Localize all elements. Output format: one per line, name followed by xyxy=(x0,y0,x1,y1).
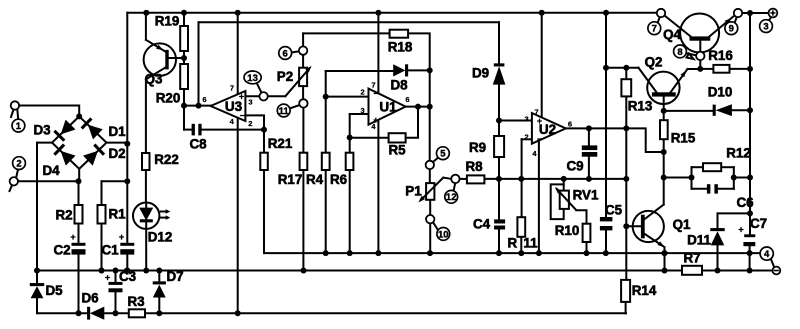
svg-text:4: 4 xyxy=(764,249,770,260)
svg-text:7: 7 xyxy=(652,24,657,35)
svg-text:R22: R22 xyxy=(154,152,179,167)
svg-text:R1: R1 xyxy=(108,207,126,222)
svg-text:P2: P2 xyxy=(277,69,293,84)
svg-text:D5: D5 xyxy=(45,283,63,298)
svg-text:C4: C4 xyxy=(473,217,491,232)
svg-text:R13: R13 xyxy=(628,99,653,114)
svg-text:+: + xyxy=(373,115,378,125)
svg-text:R: R xyxy=(507,236,517,251)
svg-text:RV1: RV1 xyxy=(573,188,599,203)
svg-text:+: + xyxy=(239,91,244,101)
svg-text:6: 6 xyxy=(568,119,572,128)
svg-text:C9: C9 xyxy=(566,159,583,174)
svg-text:−: − xyxy=(537,134,542,144)
svg-text:R20: R20 xyxy=(156,91,181,106)
svg-text:+: + xyxy=(537,116,542,126)
svg-text:6: 6 xyxy=(202,95,206,104)
svg-text:8: 8 xyxy=(677,47,682,58)
svg-text:D8: D8 xyxy=(390,78,408,93)
svg-text:R18: R18 xyxy=(388,40,413,55)
svg-text:D3: D3 xyxy=(33,123,50,138)
svg-text:R10: R10 xyxy=(555,223,580,238)
svg-text:7: 7 xyxy=(230,83,234,92)
svg-text:C3: C3 xyxy=(119,269,136,284)
svg-text:R19: R19 xyxy=(155,14,180,29)
svg-text:D7: D7 xyxy=(166,269,183,284)
svg-text:2: 2 xyxy=(525,133,529,142)
svg-text:R14: R14 xyxy=(632,283,657,298)
svg-text:+: + xyxy=(70,232,76,243)
svg-text:2: 2 xyxy=(361,87,365,96)
svg-text:R17: R17 xyxy=(278,172,303,187)
svg-text:3: 3 xyxy=(525,114,529,123)
svg-text:R3: R3 xyxy=(127,294,144,309)
svg-text:C5: C5 xyxy=(605,203,623,218)
svg-text:C7: C7 xyxy=(750,216,767,231)
svg-text:D6: D6 xyxy=(81,291,98,306)
svg-text:R21: R21 xyxy=(268,136,293,151)
svg-text:3: 3 xyxy=(248,98,252,107)
svg-text:11: 11 xyxy=(279,106,290,117)
svg-text:C8: C8 xyxy=(189,137,207,152)
svg-text:R8: R8 xyxy=(465,159,483,174)
svg-text:R9: R9 xyxy=(469,140,486,155)
svg-text:+: + xyxy=(738,225,744,236)
svg-text:P1: P1 xyxy=(405,184,422,199)
svg-text:Q4: Q4 xyxy=(663,27,681,42)
svg-text:Q2: Q2 xyxy=(645,55,663,70)
svg-text:D12: D12 xyxy=(148,230,173,245)
svg-text:R16: R16 xyxy=(708,48,733,63)
svg-text:R12: R12 xyxy=(726,146,751,161)
svg-text:D10: D10 xyxy=(708,85,733,100)
svg-text:+: + xyxy=(119,232,125,243)
svg-text:R7: R7 xyxy=(683,250,700,265)
svg-text:2: 2 xyxy=(248,119,252,128)
svg-text:D2: D2 xyxy=(108,146,125,161)
svg-text:11: 11 xyxy=(523,236,538,251)
svg-text:6: 6 xyxy=(283,48,288,59)
svg-text:6: 6 xyxy=(405,95,409,104)
svg-text:D11: D11 xyxy=(687,233,711,248)
svg-text:R15: R15 xyxy=(671,131,696,146)
svg-text:C2: C2 xyxy=(53,243,70,258)
svg-text:R6: R6 xyxy=(330,172,347,187)
svg-text:5: 5 xyxy=(440,149,446,160)
svg-text:−: − xyxy=(240,111,245,121)
svg-text:2: 2 xyxy=(16,159,21,170)
svg-text:13: 13 xyxy=(247,73,258,84)
svg-text:D1: D1 xyxy=(108,124,126,139)
svg-text:12: 12 xyxy=(446,192,457,203)
svg-text:10: 10 xyxy=(438,229,449,240)
svg-text:1: 1 xyxy=(16,121,22,132)
svg-text:R4: R4 xyxy=(306,172,324,187)
svg-text:R2: R2 xyxy=(55,208,72,223)
svg-text:D9: D9 xyxy=(472,66,489,81)
svg-text:R5: R5 xyxy=(388,143,406,158)
svg-text:C6: C6 xyxy=(736,195,753,210)
svg-text:C1: C1 xyxy=(101,243,119,258)
svg-text:3: 3 xyxy=(361,106,365,115)
svg-text:9: 9 xyxy=(729,24,734,35)
svg-text:U1: U1 xyxy=(379,100,397,115)
svg-text:+: + xyxy=(105,273,111,284)
svg-text:3: 3 xyxy=(763,22,768,33)
svg-text:7: 7 xyxy=(535,108,539,117)
svg-text:Q3: Q3 xyxy=(145,72,163,87)
svg-text:D4: D4 xyxy=(42,163,60,178)
svg-text:−: − xyxy=(373,89,378,99)
svg-text:Q1: Q1 xyxy=(673,217,691,232)
